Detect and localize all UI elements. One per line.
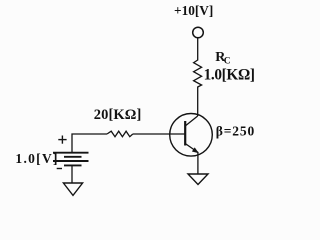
svg-text:20[KΩ]: 20[KΩ] xyxy=(94,107,142,123)
svg-text:1.0[V]: 1.0[V] xyxy=(15,151,58,166)
resistor RC (vertical zigzag) xyxy=(194,60,202,87)
transistor Q1 (NPN) xyxy=(170,114,213,157)
wire from battery bottom to ground xyxy=(71,165,73,183)
battery minus sign xyxy=(57,168,62,170)
terminal VCC (open circle) xyxy=(193,27,204,38)
wire from battery top corner to RB xyxy=(72,134,107,153)
svg-text:β=250: β=250 xyxy=(216,124,255,139)
svg-text:1.0[KΩ]: 1.0[KΩ] xyxy=(204,66,255,83)
svg-text:C: C xyxy=(224,57,231,67)
wire from RB to base of Q1 xyxy=(133,133,185,135)
wire from VCC terminal to resistor RC xyxy=(197,38,199,61)
battery V1 plates xyxy=(53,153,89,166)
battery plus sign xyxy=(58,136,66,144)
ground (battery) xyxy=(63,183,82,195)
resistor RB 20[KΩ] (horizontal zigzag) xyxy=(107,131,133,137)
svg-text:+10[V]: +10[V] xyxy=(174,3,213,18)
wire from emitter of Q1 to ground xyxy=(197,153,199,175)
ground (emitter) xyxy=(188,174,208,185)
wire from RC to collector of Q1 xyxy=(197,87,199,117)
